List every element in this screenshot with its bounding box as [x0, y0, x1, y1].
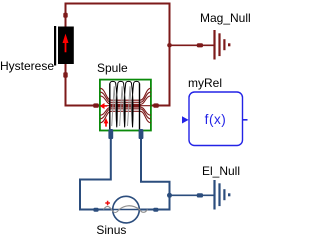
node: junction at El_Null branch	[167, 193, 172, 198]
pin: Spule electrical pin right (blue)	[139, 129, 144, 139]
wire: Hysterese bottom down and right to Spule left port	[66, 64, 100, 106]
component Spule: red current up arrow	[104, 118, 109, 127]
wire: junction to El_Null ground	[170, 194, 214, 196]
component Mag_Null: magnetic ground bar 1	[213, 30, 215, 60]
component Sinus: source circle	[113, 196, 140, 223]
component Spule: red flux arrow head at left edge	[100, 103, 105, 109]
component El_Null: electrical ground bar 1	[213, 180, 215, 210]
pin: Hysterese top pin	[63, 13, 67, 18]
component Hysterese: red up arrow	[63, 34, 69, 53]
node: junction to Mag_Null	[167, 43, 172, 48]
component Sinus: red plus sign	[105, 201, 110, 206]
component Sinus: gray sine wave	[104, 206, 148, 213]
label El_Null	[202, 164, 240, 178]
label Sinus	[96, 223, 126, 237]
component Spule: flux line 6	[100, 109, 151, 119]
pin: Hysterese bottom pin	[63, 72, 67, 78]
pin: Mag_Null pin	[197, 43, 203, 47]
wire: line through Sinus circle	[113, 209, 140, 211]
component Hysterese: black body	[58, 27, 74, 65]
component Mag_Null: bar 3	[223, 39, 225, 50]
label Spule	[97, 61, 128, 75]
component Spule: flux line 5	[100, 107, 151, 115]
wire: magnetic loop top from Hysterese top up, across, down to Spule right port	[66, 4, 170, 106]
svg-text:f(x): f(x)	[205, 112, 227, 127]
wire: Spule right pin down-right-down to junction	[139, 133, 169, 210]
block myRel: input triangle	[182, 116, 189, 123]
component Spule: coil lead left	[109, 84, 111, 133]
pin: Spule electrical pin left (blue)	[108, 129, 113, 139]
component Spule: flux axis line	[100, 105, 151, 107]
component Spule: coil front winding (black zigzag arches)	[110, 81, 140, 127]
component Spule: flux line 2	[100, 92, 151, 102]
pin: Sinus left pin	[93, 208, 98, 212]
component El_Null: bar 4 dot	[228, 193, 230, 196]
block myRel: rounded rectangle	[189, 92, 243, 146]
label Hysterese	[0, 59, 54, 73]
component Mag_Null: bar 2	[218, 33, 220, 56]
component Spule: green box	[100, 80, 151, 131]
wire: Spule left pin down-left-down to Sinus plus terminal	[80, 133, 113, 210]
component El_Null: bar 2	[218, 183, 220, 206]
label myRel	[188, 76, 222, 90]
component Spule: thick flux bar	[111, 104, 141, 108]
component Spule: flux line 3	[100, 96, 151, 105]
pin: Spule right magnetic pin	[153, 103, 159, 107]
component Mag_Null: bar 4 dot	[228, 43, 230, 46]
component Spule: flux line 1	[100, 88, 151, 100]
block myRel: output line	[243, 119, 248, 121]
component Spule: flux line 7	[100, 111, 151, 123]
component Hysterese: left thin bar	[54, 26, 56, 66]
component El_Null: bar 3	[223, 189, 225, 200]
label Mag_Null	[200, 11, 251, 25]
component Spule: coil back turns (gray)	[112, 86, 117, 126]
pin: Spule left magnetic pin	[93, 103, 99, 107]
wire: junction to Mag_Null ground	[170, 44, 214, 46]
component Spule: coil lead right	[139, 84, 141, 133]
pin: El_Null pin	[197, 193, 203, 197]
pin: Sinus right pin	[153, 208, 158, 212]
